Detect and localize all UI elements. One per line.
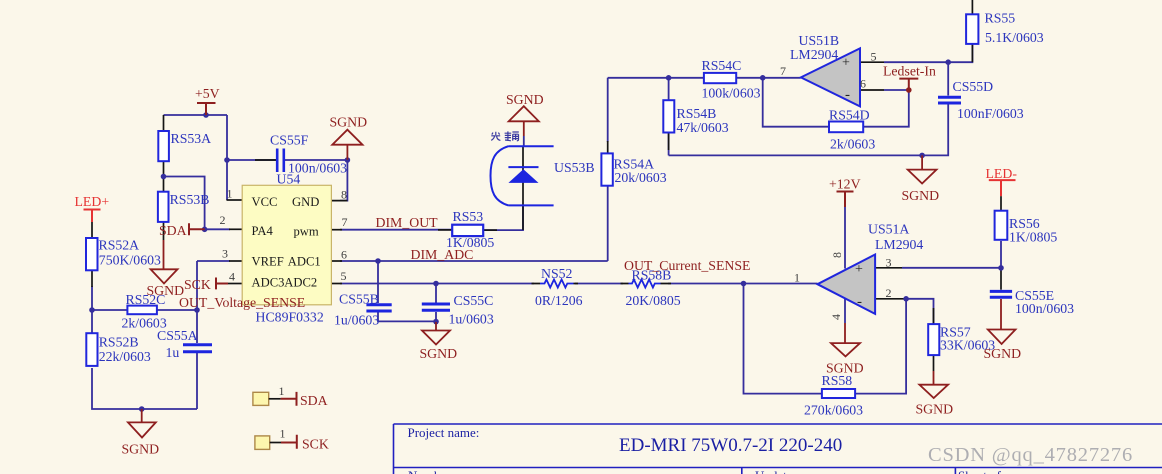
svg-text:2k/0603: 2k/0603 <box>830 137 875 152</box>
power +12V <box>837 192 854 208</box>
svg-text:+5V: +5V <box>195 86 220 101</box>
wire CS55A top lead <box>196 310 198 343</box>
svg-text:3: 3 <box>886 256 892 270</box>
svg-text:ADC2: ADC2 <box>284 276 317 290</box>
wire pwm pin7 to RS53 <box>340 229 452 231</box>
svg-text:+: + <box>855 262 863 277</box>
wire RS54B top lead <box>668 78 670 100</box>
pin US51B 5 stub <box>860 61 884 63</box>
wire pin 4 below <box>844 299 846 324</box>
svg-text:Update: Update <box>755 468 793 474</box>
wire lead RS53 left <box>438 229 452 231</box>
resistor RS56 <box>995 211 1008 240</box>
wire RS52C right segment <box>157 309 197 311</box>
svg-text:LED+: LED+ <box>75 194 110 209</box>
pin US51A 3 stub <box>875 267 902 269</box>
resistor RS54D <box>829 122 863 133</box>
svg-text:270k/0603: 270k/0603 <box>804 403 863 418</box>
wire lead RS56 to CS55E <box>1000 268 1002 290</box>
wire OUT_Voltage vertical <box>196 261 198 310</box>
svg-text:100n/0603: 100n/0603 <box>1015 301 1074 316</box>
ground SGND under CS55E <box>988 299 1016 344</box>
capacitor CS55F <box>277 149 284 173</box>
svg-text:CS55A: CS55A <box>157 328 198 343</box>
svg-text:1u/0603: 1u/0603 <box>449 312 494 327</box>
ground SGND above optocoupler <box>509 106 539 136</box>
svg-text:SGND: SGND <box>984 346 1022 361</box>
wire CS55D node to RS55 <box>948 45 972 62</box>
resistor RS53A <box>158 131 169 161</box>
pin U54 ADC2 stub <box>331 283 342 285</box>
pin U54 ADC3 stub <box>227 283 242 285</box>
wire lead CS55F left <box>255 159 276 161</box>
label 光耦 (optocoupler) <box>491 131 519 140</box>
wire lead RS55 bottom <box>971 44 973 62</box>
port SCK bottom <box>255 436 270 450</box>
svg-text:100n/0603: 100n/0603 <box>288 161 347 176</box>
pin U54 VREF stub <box>229 260 242 262</box>
wire lead RS57 top <box>933 308 935 324</box>
wire RS54B bottom lead <box>668 133 670 155</box>
wire CS55F left branch <box>227 159 276 161</box>
wire between NS52 and RS58B <box>575 283 623 285</box>
wire RS54C to pin7 node <box>736 77 763 79</box>
capacitor CS55C <box>422 304 450 310</box>
svg-text:VCC: VCC <box>252 195 278 209</box>
svg-text:SGND: SGND <box>122 442 160 457</box>
pin US51A 2 stub <box>875 298 906 300</box>
resistor RS52C <box>127 306 156 315</box>
wire RS54A top to node A <box>608 78 669 142</box>
wire RS54A bottom lead <box>607 186 609 261</box>
ground SGND on rail near CS55D <box>908 155 937 183</box>
port SDA at U54 <box>189 223 205 235</box>
power +5V <box>197 103 216 115</box>
svg-text:2: 2 <box>886 286 892 300</box>
svg-text:LED-: LED- <box>986 166 1018 181</box>
wire ADC1 pin6 DIM_ADC run <box>340 260 608 262</box>
op-amp US51B <box>801 48 860 106</box>
svg-text:20k/0603: 20k/0603 <box>615 170 667 185</box>
svg-text:RS52C: RS52C <box>126 292 166 307</box>
wire RS58B to node junction <box>668 283 744 285</box>
svg-text:DIM_OUT: DIM_OUT <box>376 215 439 230</box>
wire lead RS53B top <box>163 177 165 192</box>
resistor RS58B zigzag <box>621 283 672 285</box>
svg-text:7: 7 <box>342 215 348 229</box>
wire CS55A bottom lead <box>196 351 198 409</box>
wire +12V column to pin 8 <box>844 207 846 269</box>
op-amp US51A <box>818 255 876 314</box>
wire lead RS57 bottom <box>933 355 935 371</box>
wire lead RS53A top <box>163 115 165 131</box>
wire CS55D top lead <box>947 62 949 95</box>
svg-text:LM2904: LM2904 <box>875 237 923 252</box>
svg-text:ED-MRI 75W0.7-2I 220-240: ED-MRI 75W0.7-2I 220-240 <box>619 435 842 456</box>
power LED+ <box>84 210 101 223</box>
svg-text:47k/0603: 47k/0603 <box>677 120 729 135</box>
capacitor CS55B <box>366 305 391 311</box>
svg-text:1: 1 <box>794 271 800 285</box>
port SDA bottom <box>253 392 269 405</box>
resistor RS55 <box>966 14 978 44</box>
svg-text:SGND: SGND <box>902 188 940 203</box>
svg-text:RS52A: RS52A <box>99 238 140 253</box>
svg-text:1: 1 <box>280 427 286 441</box>
svg-text:DIM_ADC: DIM_ADC <box>411 247 474 262</box>
svg-text:CS55B: CS55B <box>339 292 379 307</box>
svg-text:US53B: US53B <box>554 160 595 175</box>
svg-text:+: + <box>842 56 850 71</box>
power LED- <box>989 180 1016 196</box>
resistor RS57 <box>928 324 939 355</box>
svg-text:SCK: SCK <box>302 437 329 452</box>
svg-text:RS58: RS58 <box>822 373 853 388</box>
wire CS55C bottom junction <box>435 312 437 322</box>
wire feedback down and along RS58 <box>744 284 822 394</box>
svg-text:PA4: PA4 <box>252 224 274 238</box>
pin U54 PA4 stub <box>229 228 242 230</box>
svg-text:RS52B: RS52B <box>99 335 139 350</box>
svg-text:HC89F0332: HC89F0332 <box>256 310 324 325</box>
wire lead RS55 top edge <box>971 0 973 14</box>
svg-text:5.1K/0603: 5.1K/0603 <box>985 30 1044 45</box>
svg-text:Number: Number <box>408 468 451 474</box>
svg-text:1u/0603: 1u/0603 <box>334 313 379 328</box>
wire lead RS53 right <box>483 229 497 231</box>
IC U54 body <box>242 185 331 304</box>
svg-text:SDA: SDA <box>300 393 328 408</box>
wire pin2 node to RS57 <box>906 299 933 324</box>
svg-text:750K/0603: 750K/0603 <box>99 252 161 267</box>
svg-text:SGND: SGND <box>506 92 544 107</box>
svg-text:CS55F: CS55F <box>270 133 309 148</box>
resistor RS53 <box>452 225 483 236</box>
wire RS53A bottom junction to SDA column <box>164 177 205 230</box>
svg-text:US51B: US51B <box>799 33 840 48</box>
wire lead RS53A bottom <box>163 161 165 176</box>
svg-text:NS52: NS52 <box>541 266 573 281</box>
optocoupler US53B <box>491 146 554 205</box>
wire RS54D right up to pin 6 <box>863 90 909 127</box>
svg-text:1: 1 <box>227 187 233 201</box>
svg-text:3: 3 <box>222 247 228 261</box>
ground SGND under RS57 <box>919 371 948 398</box>
wire feedback pin7 node down to RS54D <box>763 78 829 127</box>
svg-text:RS53A: RS53A <box>171 131 212 146</box>
wire US51A pin3 to RS56 node <box>902 267 1001 269</box>
resistor RS58 <box>822 389 855 398</box>
svg-text:4: 4 <box>829 314 843 320</box>
svg-text:20K/0805: 20K/0805 <box>626 293 681 308</box>
svg-text:RS55: RS55 <box>985 11 1016 26</box>
wire CS55D bottom to ground rail <box>669 105 949 156</box>
ground SGND bottom left <box>128 409 156 438</box>
svg-text:8: 8 <box>341 188 347 202</box>
port SCK at U54 <box>216 278 228 290</box>
wire ADC2 pin5 OUT_Current run left <box>340 283 534 285</box>
capacitor CS55E <box>990 291 1012 297</box>
wire LED+ column lower <box>91 286 93 310</box>
svg-text:CSDN @qq_47827276: CSDN @qq_47827276 <box>928 444 1133 466</box>
wire RS52C left segment <box>92 309 127 311</box>
wire lead RS52A bottom <box>91 270 93 287</box>
wire lead LED- to RS56 <box>1000 196 1002 211</box>
resistor RS52B <box>86 333 97 366</box>
wire SDA junction to pin 2 <box>205 228 230 230</box>
pin U54 ADC1 stub <box>331 260 342 262</box>
wire optocoupler top segment <box>523 136 525 146</box>
svg-text:Project name:: Project name: <box>408 425 480 440</box>
svg-text:VREF: VREF <box>252 254 284 268</box>
pin U54 GND stub <box>331 200 347 202</box>
capacitor CS55A <box>183 345 212 352</box>
svg-text:pwm: pwm <box>294 224 319 238</box>
wire lead optocoupler vertical <box>522 146 524 230</box>
resistor RS54B <box>663 100 674 132</box>
svg-text:1K/0805: 1K/0805 <box>1009 230 1057 245</box>
svg-text:5: 5 <box>871 50 877 64</box>
resistor NS52 zigzag <box>532 283 579 285</box>
svg-text:RS53B: RS53B <box>170 192 210 207</box>
svg-text:ADC3: ADC3 <box>252 276 285 290</box>
wire pin5 to CS55D node <box>884 61 948 63</box>
svg-text:1u: 1u <box>166 345 180 360</box>
wire +5V rail down to VCC pin <box>226 115 228 200</box>
svg-text:RS54C: RS54C <box>702 58 742 73</box>
wire CS55F right to SGND junction <box>285 159 347 161</box>
svg-text:SCK: SCK <box>184 277 211 292</box>
pin U54 pwm stub <box>331 229 342 231</box>
svg-text:5: 5 <box>341 269 347 283</box>
wire CS55C top lead <box>435 284 437 303</box>
wire lead RS54B bottom black <box>668 133 670 151</box>
wire VREF pin 3 to OUT_Voltage column <box>197 260 230 262</box>
svg-text:CS55D: CS55D <box>953 79 994 94</box>
svg-text:22k/0603: 22k/0603 <box>99 349 151 364</box>
svg-text:ADC1: ADC1 <box>288 254 321 268</box>
svg-text:1: 1 <box>279 384 285 398</box>
svg-text:+12V: +12V <box>829 177 861 192</box>
power Ledset-In <box>899 79 918 90</box>
wire RS52B top lead <box>91 310 93 333</box>
wire CS55B bottom to CS55C bottom <box>378 313 436 322</box>
wire +5V rail horizontal <box>164 114 228 116</box>
svg-text:6: 6 <box>341 248 347 262</box>
svg-text:7: 7 <box>780 64 786 78</box>
svg-text:OUT_Current_SENSE: OUT_Current_SENSE <box>624 258 750 273</box>
svg-text:SGND: SGND <box>916 402 954 417</box>
svg-text:2: 2 <box>220 213 226 227</box>
capacitor CS55D <box>938 97 961 103</box>
svg-text:4: 4 <box>229 270 235 284</box>
svg-text:100nF/0603: 100nF/0603 <box>957 106 1024 121</box>
ground SGND under RS53B <box>151 240 178 284</box>
wire node to US51A pin 1 <box>744 283 818 285</box>
svg-text:8: 8 <box>830 252 844 258</box>
wire RS56 bottom lead <box>1000 241 1002 268</box>
svg-text:LM2904: LM2904 <box>790 47 838 62</box>
ground SGND under US51A <box>831 323 860 356</box>
resistor RS53B <box>158 192 169 222</box>
svg-text:RS53: RS53 <box>453 209 484 224</box>
wire SGND junction down to GND pin 8 <box>340 160 347 201</box>
resistor RS54A <box>601 153 612 185</box>
svg-text:CS55C: CS55C <box>454 293 494 308</box>
wire RS53 right to optocoupler corner <box>483 205 523 230</box>
svg-text:0R/1206: 0R/1206 <box>535 293 583 308</box>
svg-text:RS54D: RS54D <box>829 108 870 123</box>
svg-text:SDA: SDA <box>159 223 187 238</box>
svg-text:US51A: US51A <box>868 222 909 237</box>
title block <box>394 424 1162 474</box>
pin U54 VCC stub <box>227 199 243 201</box>
wire pin6 stub to node <box>884 89 909 91</box>
wire node A to RS54C <box>669 77 704 79</box>
wire lead RS53B bottom <box>163 222 165 240</box>
svg-text:SGND: SGND <box>420 346 458 361</box>
resistor RS54C <box>704 73 736 83</box>
svg-text:SGND: SGND <box>330 115 368 130</box>
ground SGND under CS55C <box>422 322 450 345</box>
svg-text:6: 6 <box>860 77 866 91</box>
wire RS52B bottom to ground rail <box>92 368 197 409</box>
svg-text:Sheet of: Sheet of <box>958 468 1002 474</box>
svg-text:-: - <box>845 87 850 103</box>
wire lead RS54A top <box>607 141 609 153</box>
wire CS55B top lead <box>377 261 379 303</box>
pin US51B 6 stub <box>860 89 884 91</box>
svg-text:-: - <box>857 294 862 310</box>
resistor RS52A <box>86 238 98 270</box>
wire lead LED+ to RS52A <box>91 222 93 238</box>
svg-text:OUT_Voltage_SENSE: OUT_Voltage_SENSE <box>179 295 305 310</box>
svg-text:Ledset-In: Ledset-In <box>883 64 936 79</box>
ground SGND above CS55F <box>332 130 362 160</box>
wire RS58 right up to pin 2 node <box>855 299 906 394</box>
svg-text:100k/0603: 100k/0603 <box>702 86 761 101</box>
svg-text:RS54B: RS54B <box>677 106 717 121</box>
wire pin7 node to US51B output <box>763 77 801 79</box>
svg-text:GND: GND <box>292 195 319 209</box>
